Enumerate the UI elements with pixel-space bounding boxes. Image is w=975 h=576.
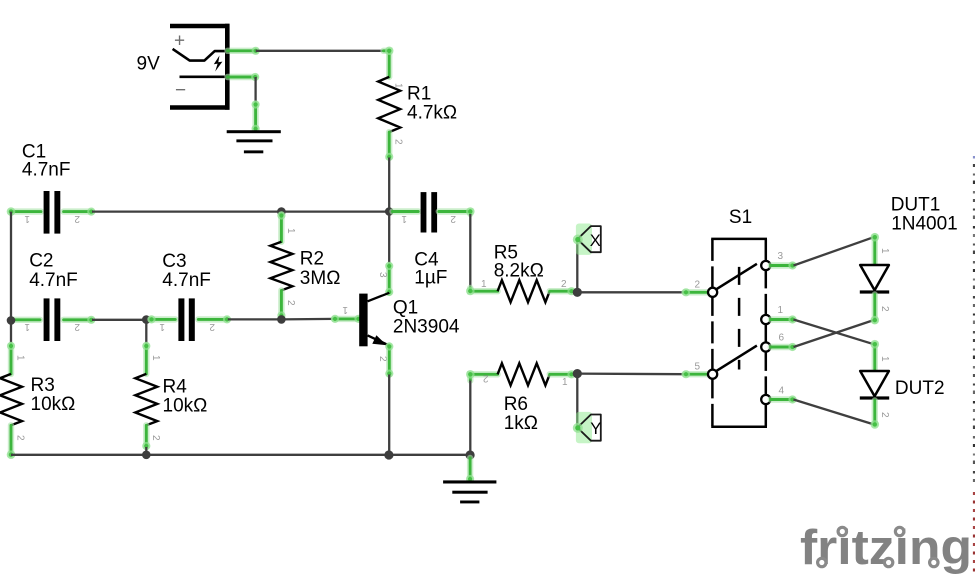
wire R6 left down to rail — [469, 381, 471, 456]
wire Y stem — [576, 374, 578, 427]
svg-text:−: − — [175, 80, 186, 101]
wire DUT2 anode lead (green) — [871, 340, 880, 370]
svg-text:1: 1 — [879, 356, 890, 362]
wire C3 pin1 (green) — [147, 315, 175, 323]
svg-text:10kΩ: 10kΩ — [31, 394, 76, 415]
wire pin4 to DUT2 cathode — [794, 400, 874, 425]
node junction base — [277, 315, 286, 324]
wire battery minus lead (green) — [228, 73, 260, 81]
svg-text:1: 1 — [159, 321, 165, 332]
svg-text:2: 2 — [15, 435, 26, 441]
node junction R4 bottom — [142, 451, 151, 460]
svg-text:2: 2 — [209, 321, 215, 332]
svg-text:2: 2 — [483, 373, 489, 384]
resistor R4 — [135, 374, 157, 425]
connector X — [573, 224, 601, 255]
wire R1 to node A — [388, 158, 390, 212]
wire R3 top — [10, 320, 12, 345]
resistor R3 — [0, 374, 22, 425]
resistor R6 — [498, 363, 550, 385]
svg-text:DUT2: DUT2 — [895, 378, 945, 399]
wire Q1 collector pin (green) — [385, 262, 393, 296]
wire C4 down to R5 — [469, 214, 471, 288]
svg-text:1: 1 — [15, 355, 26, 361]
svg-text:1kΩ: 1kΩ — [504, 413, 538, 434]
wire Q1 base pin (green) — [331, 315, 363, 323]
wire R2 pin2 (green) — [277, 290, 285, 319]
wire battery plus lead (green) — [228, 47, 260, 55]
wire node A to collector — [388, 212, 390, 266]
wire pin1 to DUT2 anode — [794, 320, 874, 345]
svg-text:C2: C2 — [29, 251, 53, 272]
diode DUT1 — [860, 265, 889, 294]
svg-text:9V: 9V — [137, 54, 161, 75]
svg-text:4.7nF: 4.7nF — [29, 270, 78, 291]
wire ground right lead (green) — [466, 458, 474, 483]
node junction Y — [573, 369, 582, 378]
wire X stem — [576, 240, 578, 292]
wire C4 pin1 (green) — [393, 208, 419, 214]
svg-text:C3: C3 — [162, 251, 186, 272]
wire S1 pin4 lead (green) — [771, 395, 797, 403]
battery BT1 9V — [170, 24, 230, 110]
svg-text:4: 4 — [779, 386, 785, 397]
svg-text:Q1: Q1 — [393, 298, 418, 319]
wire S1 pin6 lead (green) — [771, 343, 797, 351]
node junction X — [573, 288, 582, 297]
wire Q1 emitter pin (green) — [385, 342, 393, 377]
svg-text:1N4001: 1N4001 — [891, 213, 958, 234]
wire R2 pin1 (green) — [277, 211, 285, 241]
svg-text:2: 2 — [285, 300, 296, 306]
svg-text:2: 2 — [393, 139, 404, 145]
svg-text:1: 1 — [401, 213, 407, 224]
svg-text:1: 1 — [393, 83, 404, 89]
node junction ground right — [466, 450, 475, 459]
svg-text:1: 1 — [778, 305, 784, 316]
wire R1 pin1 corner (green) — [384, 47, 394, 77]
svg-text:1: 1 — [481, 279, 487, 290]
wire X node to S1 pin2 — [577, 291, 684, 293]
svg-text:2: 2 — [879, 306, 890, 312]
svg-text:4.7nF: 4.7nF — [22, 160, 71, 181]
svg-text:1: 1 — [150, 355, 161, 361]
wire bottom rail — [11, 454, 470, 456]
wire pin3 to DUT1 anode — [794, 237, 874, 265]
wire base node to Q1 — [281, 318, 334, 321]
wire S1 pin1 lead (green) — [771, 315, 797, 323]
wire C2 to C3 — [92, 319, 146, 321]
wire R5 pin2 (green) — [550, 287, 576, 295]
wire DUT1 cathode lead (green) — [871, 295, 880, 325]
capacitor C4 — [421, 192, 437, 232]
svg-text:2: 2 — [879, 412, 890, 418]
capacitor C3 — [178, 298, 194, 341]
wire R3 pin1 (green) — [7, 342, 15, 374]
svg-text:1µF: 1µF — [414, 268, 447, 289]
wire C3 to R2 bottom node — [228, 318, 282, 320]
wire pin6 to DUT1 cathode — [794, 320, 874, 347]
svg-text:1: 1 — [879, 248, 890, 254]
diode DUT2 — [860, 371, 889, 400]
wire C1 pin2 (green) — [64, 208, 96, 216]
wire S1 pin3 lead (green) — [771, 261, 797, 269]
wire C2 pin1 (green) — [12, 317, 41, 323]
svg-text:1: 1 — [342, 304, 348, 315]
wire S1 pin5 lead (green) — [682, 370, 708, 378]
connector Y — [573, 412, 601, 443]
wire R3 pin2 (green) — [7, 425, 16, 459]
node junction left rail — [7, 316, 16, 325]
node junction R4 top — [142, 315, 151, 324]
svg-text:DUT1: DUT1 — [891, 194, 941, 215]
ground GND1 — [227, 130, 281, 153]
svg-text:3MΩ: 3MΩ — [300, 268, 341, 289]
wire Y node to S1 pin5 — [577, 372, 684, 375]
wire C4 pin2 (green) — [439, 207, 475, 216]
wire R1 pin2 (green) — [385, 132, 393, 161]
capacitor C2 — [44, 298, 61, 341]
wire R6 pin2 (green) — [466, 370, 498, 381]
wire DUT1 anode lead (green) — [871, 233, 880, 265]
wire R5 pin1 (green) — [466, 287, 498, 296]
svg-text:3: 3 — [377, 272, 388, 278]
svg-text:2N3904: 2N3904 — [393, 317, 460, 338]
svg-text:1: 1 — [24, 321, 30, 332]
wire R4 pin2 (green) — [142, 425, 150, 450]
switch S1 — [708, 239, 770, 427]
ground GND2 — [443, 480, 496, 503]
svg-text:+: + — [174, 31, 185, 52]
wire left rail — [10, 212, 12, 321]
svg-text:3: 3 — [778, 251, 784, 262]
svg-text:R3: R3 — [31, 375, 55, 396]
wire R4 top — [145, 320, 147, 345]
resistor R2 — [270, 242, 292, 291]
wire C1 pin1 (green) — [7, 207, 41, 216]
node junction R2 top — [277, 207, 286, 216]
resistor R1 — [378, 77, 400, 132]
svg-text:S1: S1 — [729, 207, 752, 228]
wire C3 pin2 (green) — [198, 315, 231, 323]
wire emitter to bottom rail — [388, 375, 390, 456]
fritzing watermark — [800, 521, 972, 575]
svg-text:X: X — [590, 232, 601, 250]
resistor R5 — [498, 280, 550, 302]
wire row1 to node A — [92, 210, 389, 212]
svg-text:1: 1 — [285, 228, 296, 234]
wire DUT2 cathode lead (green) — [871, 401, 880, 429]
svg-text:10kΩ: 10kΩ — [163, 396, 208, 417]
svg-text:8.2kΩ: 8.2kΩ — [494, 261, 544, 282]
wire R4 pin1 (green) — [142, 342, 150, 374]
svg-text:R6: R6 — [504, 394, 528, 415]
svg-text:2: 2 — [695, 280, 701, 291]
transistor Q1 — [359, 293, 389, 347]
svg-text:R2: R2 — [300, 249, 324, 270]
capacitor C1 — [44, 191, 61, 234]
svg-text:4.7nF: 4.7nF — [162, 270, 211, 291]
wire C2 pin2 (green) — [64, 316, 96, 324]
svg-text:4.7kΩ: 4.7kΩ — [407, 103, 457, 124]
right edge clipped part marks — [973, 156, 975, 572]
wire battery minus to ground — [254, 77, 256, 104]
node junction emitter bottom — [384, 450, 393, 459]
wire R6 pin1 (green) — [550, 370, 576, 378]
svg-text:2: 2 — [150, 435, 161, 441]
wire R4 to bottom rail — [145, 447, 147, 455]
wire ground lead (green) — [252, 100, 260, 133]
wire S1 pin2 lead (green) — [682, 288, 708, 296]
svg-text:R1: R1 — [407, 84, 431, 105]
svg-text:1: 1 — [562, 377, 568, 388]
svg-text:6: 6 — [779, 333, 785, 344]
node junction A — [385, 207, 394, 216]
wire battery plus to R1 — [256, 50, 386, 52]
svg-text:1: 1 — [24, 213, 30, 224]
svg-text:5: 5 — [695, 362, 701, 373]
svg-text:R4: R4 — [163, 377, 188, 398]
svg-text:Y: Y — [590, 420, 601, 438]
